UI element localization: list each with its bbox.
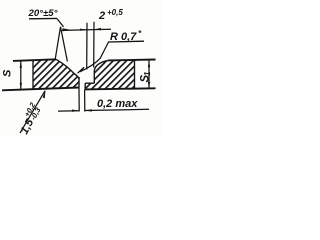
0,2 max left dim segment with arrow	[58, 110, 79, 112]
S1 dim arrow down	[148, 82, 150, 89]
right plate upper lock face	[93, 71, 95, 84]
right plate right edge	[134, 60, 136, 89]
left plate groove flank curve (J-bevel with R0.7)	[56, 59, 79, 79]
leader from 20deg label	[57, 19, 64, 27]
S dim arrow up	[20, 61, 22, 68]
label 1,5 +0,2/-0,3 rotated	[15, 100, 45, 136]
arrow pointing left at x=95	[94, 28, 101, 31]
left plate outline: left edge	[32, 60, 34, 89]
label 20deg underline	[29, 17, 57, 19]
left plate bottom surface (extends left as extension line for S)	[2, 88, 79, 91]
arrow pointing right at x=88	[80, 29, 87, 31]
dimension line 2+0.5	[62, 29, 111, 30]
S dim arrow down	[20, 83, 22, 90]
svg-text:*: *	[138, 29, 142, 38]
S1 dim arrow up	[148, 60, 150, 67]
label S1 rotated	[140, 71, 153, 83]
S1 dimension line	[148, 60, 150, 88]
svg-text:S: S	[2, 69, 14, 77]
svg-text:2: 2	[98, 10, 105, 22]
extension line below left root face for 0,2 max	[78, 88, 80, 112]
extension line at 95	[93, 22, 95, 68]
leader from R0,7 to groove radius	[80, 42, 109, 72]
svg-text:1: 1	[143, 71, 152, 76]
leader arrowhead	[63, 28, 71, 31]
left plate top surface (extends left as extension line for S)	[13, 59, 56, 61]
right plate hatched section (lock-step edge)	[85, 60, 134, 90]
right plate root face	[84, 83, 86, 89]
right plate groove shoulder curve	[94, 60, 108, 70]
extension line at 88	[86, 23, 88, 70]
svg-text:20°±5°: 20°±5°	[28, 8, 58, 19]
R0,7 leader arrowhead	[78, 67, 84, 73]
right plate lock ledge	[85, 82, 94, 84]
20 degree angle construction line left leg	[55, 27, 61, 61]
0,2 max right dim segment with arrow	[85, 109, 149, 110]
svg-text:0,2 max: 0,2 max	[97, 98, 138, 110]
1,5 leader arrowhead pointing up	[43, 90, 46, 99]
left plate root face	[78, 77, 80, 88]
S dimension line	[20, 61, 22, 90]
right plate top surface (extends right as extension line for S1)	[108, 59, 156, 62]
underline of R0,7	[108, 40, 144, 43]
svg-text:+0,5: +0,5	[107, 8, 123, 17]
leader line for 1,5 dimension (rotated)	[20, 91, 45, 133]
extension line below right root face for 0,2 max	[84, 89, 86, 111]
left plate hatched section	[33, 59, 79, 89]
right plate bottom surface (extends right as extension line for S1)	[85, 88, 155, 89]
20 degree angle construction line right leg	[61, 27, 68, 62]
